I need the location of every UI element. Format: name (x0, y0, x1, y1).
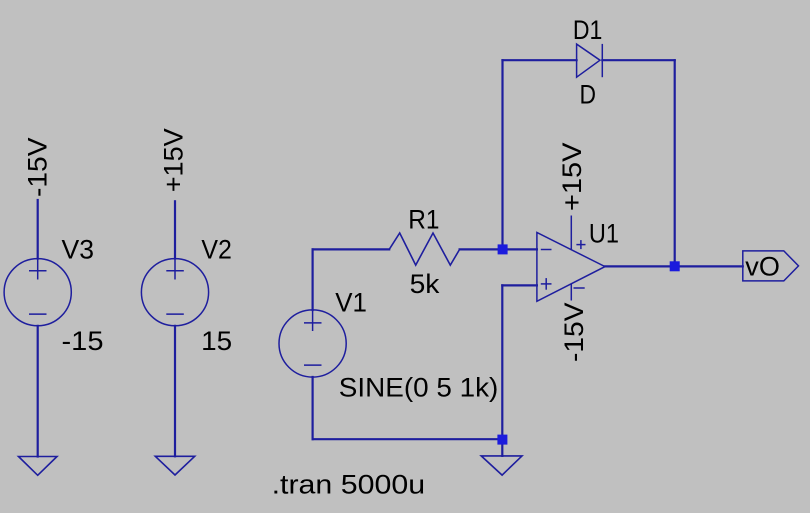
svg-text:SINE(0 5 1k): SINE(0 5 1k) (339, 373, 499, 403)
svg-text:5k: 5k (410, 269, 440, 299)
svg-text:V3: V3 (62, 235, 95, 265)
wire op-amp noninverting input (502, 284, 537, 286)
wire R1 to op-amp inverting input (460, 248, 537, 250)
svg-text:D: D (580, 80, 597, 110)
svg-text:.tran 5000u: .tran 5000u (272, 469, 426, 499)
wire V2 top lead (174, 201, 176, 258)
wire bottom horizontal (313, 438, 503, 440)
node B junction (670, 261, 680, 271)
wire node A up (501, 60, 503, 249)
ground under V3 (19, 457, 58, 476)
voltage source V1 (279, 310, 346, 377)
svg-text:vO: vO (745, 252, 780, 282)
output flag vO (743, 251, 799, 281)
svg-text:R1: R1 (408, 205, 439, 235)
wire V1 bottom lead (312, 377, 314, 439)
svg-text:-15V: -15V (22, 138, 52, 198)
svg-text:+15V: +15V (159, 128, 189, 192)
voltage source V2 (141, 259, 208, 326)
node A junction (498, 244, 508, 254)
wire output to flag (605, 265, 743, 267)
svg-text:V1: V1 (335, 287, 367, 317)
wire V1 top lead (312, 249, 314, 310)
ground under node C (481, 456, 522, 475)
wire top to diode anode (503, 59, 577, 61)
wire node C to ground (501, 444, 503, 456)
wire right vertical down (674, 60, 676, 266)
wire diode cathode to right corner (602, 59, 674, 61)
ground under V2 (155, 456, 194, 475)
op-amp U1 (537, 216, 605, 302)
svg-text:U1: U1 (589, 218, 619, 248)
svg-text:D1: D1 (573, 15, 603, 45)
wire V3 bottom lead (37, 326, 39, 457)
resistor R1 (389, 233, 459, 265)
svg-text:-15: -15 (62, 326, 104, 356)
svg-text:15: 15 (201, 326, 232, 356)
wire V2 bottom lead (174, 326, 176, 457)
node C junction (497, 435, 507, 445)
wire vertical to bottom node (501, 285, 503, 439)
wire main horizontal to R1 (313, 248, 390, 250)
voltage source V3 (4, 259, 71, 326)
svg-text:V2: V2 (201, 235, 232, 265)
svg-text:+15V: +15V (557, 143, 587, 212)
wire V3 top lead (37, 200, 39, 259)
diode D1 (577, 44, 603, 77)
svg-text:-15V: -15V (559, 303, 589, 363)
